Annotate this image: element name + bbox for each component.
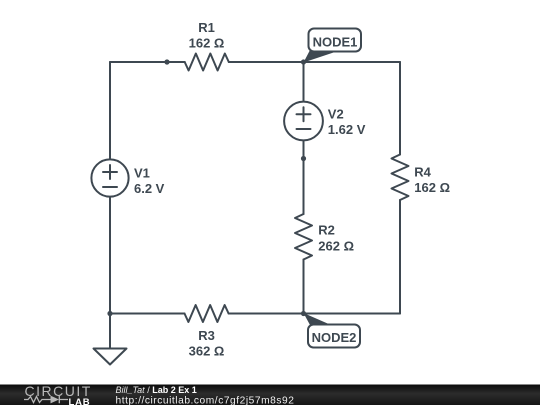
svg-text:1.62 V: 1.62 V bbox=[328, 122, 366, 137]
svg-text:R3: R3 bbox=[198, 328, 215, 343]
svg-text:V2: V2 bbox=[328, 106, 344, 121]
svg-text:162 Ω: 162 Ω bbox=[189, 36, 225, 51]
svg-text:162 Ω: 162 Ω bbox=[414, 180, 450, 195]
svg-text:R1: R1 bbox=[198, 20, 215, 35]
svg-text:R4: R4 bbox=[414, 165, 431, 180]
svg-text:Bill_Tat / Lab 2 Ex 1: Bill_Tat / Lab 2 Ex 1 bbox=[116, 385, 197, 395]
svg-text:6.2 V: 6.2 V bbox=[134, 181, 165, 196]
svg-text:http://circuitlab.com/c7gf2j57: http://circuitlab.com/c7gf2j57m8s92 bbox=[116, 395, 295, 405]
svg-text:LAB: LAB bbox=[69, 397, 91, 405]
svg-text:362 Ω: 362 Ω bbox=[189, 344, 225, 359]
svg-text:NODE1: NODE1 bbox=[313, 35, 358, 50]
svg-text:R2: R2 bbox=[318, 223, 335, 238]
svg-text:NODE2: NODE2 bbox=[312, 330, 357, 345]
svg-text:262 Ω: 262 Ω bbox=[318, 238, 354, 253]
svg-text:V1: V1 bbox=[134, 165, 150, 180]
